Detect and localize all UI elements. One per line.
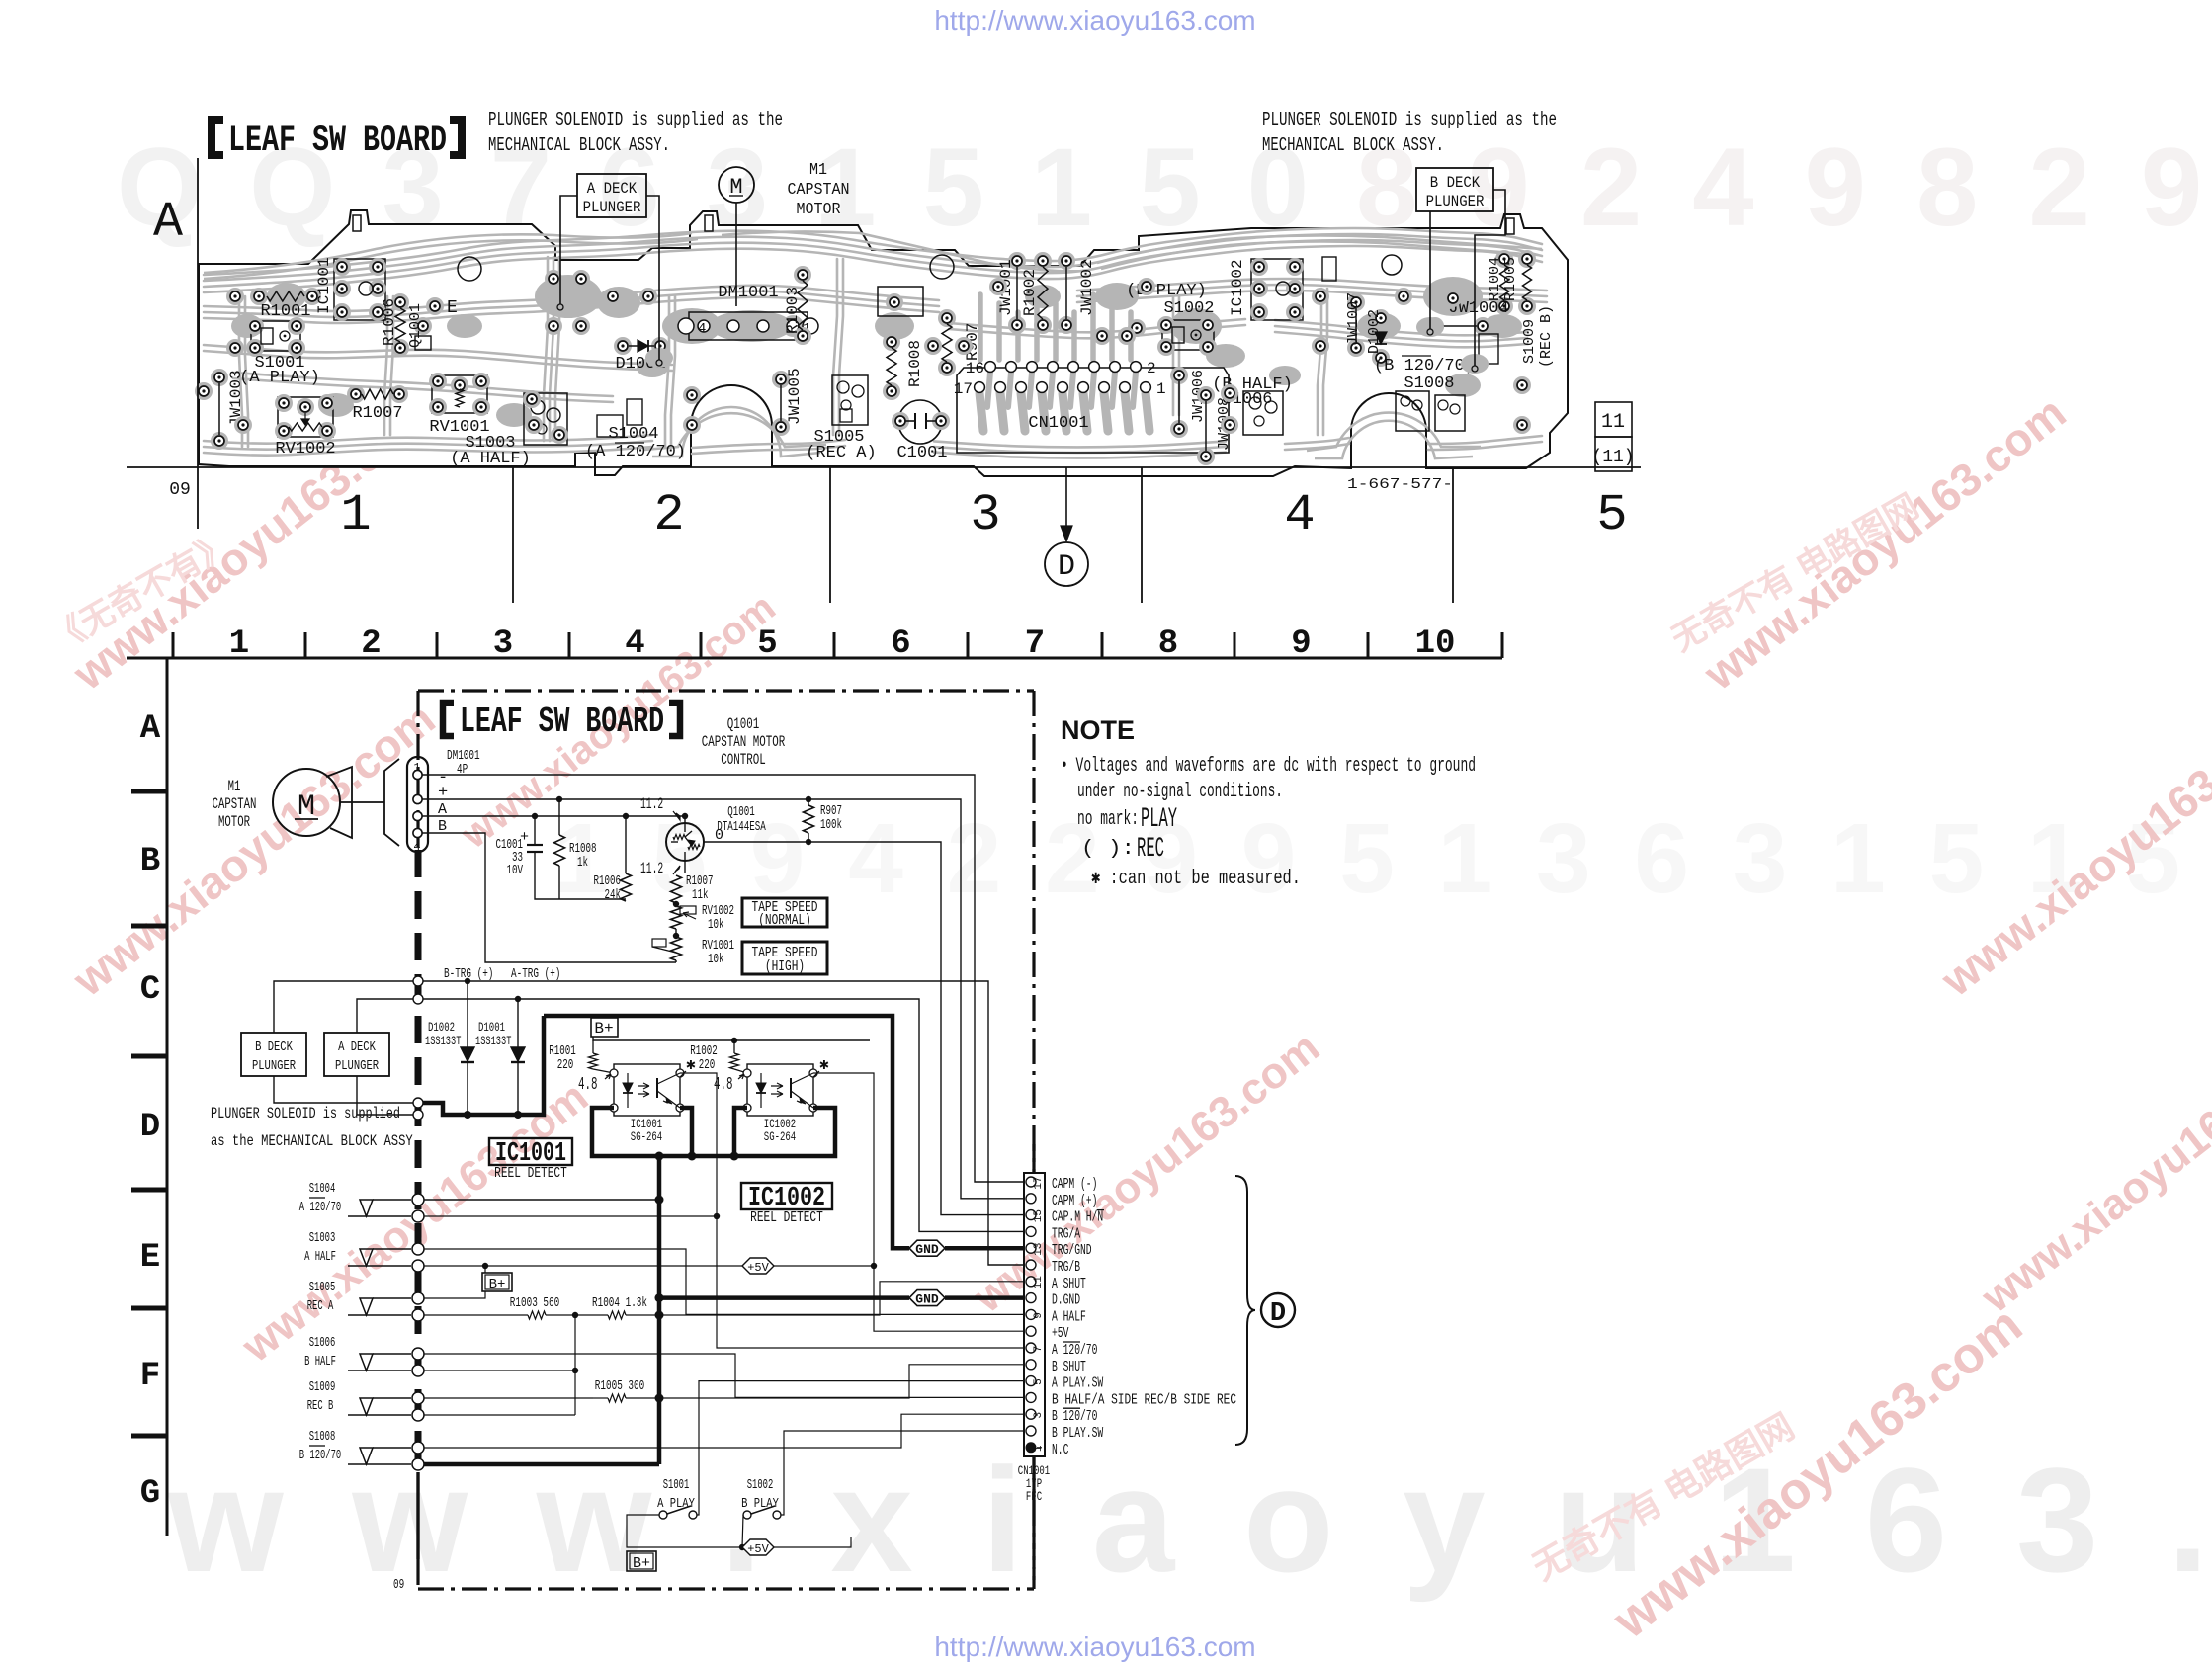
pcb C1001 <box>898 400 942 444</box>
A DECK PLUNGER box <box>324 1033 389 1076</box>
pcb D1002 <box>1372 309 1390 327</box>
svg-text:A HALF: A HALF <box>304 1249 336 1265</box>
pcb R1008 <box>883 333 900 351</box>
pcb S1006 switch body <box>1243 391 1283 435</box>
IC1001 big label <box>489 1138 572 1165</box>
svg-text:2: 2 <box>1147 360 1156 377</box>
pcb R1002 <box>1034 252 1052 270</box>
svg-text:SG-264: SG-264 <box>631 1129 663 1144</box>
svg-text:11.2: 11.2 <box>640 860 663 877</box>
svg-text:4: 4 <box>1284 486 1315 544</box>
wire: +5V supply row <box>627 1515 742 1547</box>
svg-text:CAPSTAN: CAPSTAN <box>213 795 257 813</box>
pcb JW1002 <box>1058 252 1075 270</box>
svg-text:+5V: +5V <box>1052 1325 1068 1342</box>
svg-text:PLUNGER: PLUNGER <box>1426 193 1485 210</box>
pcb R1003 <box>794 266 811 284</box>
svg-text:A 120/70: A 120/70 <box>1052 1342 1097 1359</box>
svg-text:JW1002: JW1002 <box>1078 259 1096 316</box>
wire: B+ rail <box>593 1037 870 1040</box>
svg-text:MECHANICAL BLOCK ASSY.: MECHANICAL BLOCK ASSY. <box>1262 134 1444 156</box>
pcb S1001 (A PLAY) <box>251 321 300 351</box>
svg-text:A DECK: A DECK <box>338 1039 376 1055</box>
svg-text:(A PLAY): (A PLAY) <box>239 369 320 387</box>
svg-text:4.8: 4.8 <box>578 1075 598 1095</box>
pcb IC1001 <box>334 259 385 320</box>
svg-text:1: 1 <box>1156 380 1166 398</box>
svg-text:no mark:: no mark: <box>1077 808 1139 831</box>
svg-text:(HIGH): (HIGH) <box>765 958 805 975</box>
svg-text:RV1002: RV1002 <box>275 440 335 458</box>
svg-text:A DECK: A DECK <box>587 180 638 198</box>
wire: IC1002 output <box>813 1073 874 1266</box>
svg-text:(B 120/70): (B 120/70) <box>1374 357 1475 375</box>
B+ box E row <box>482 1273 512 1291</box>
pcb RV1002 <box>278 397 333 437</box>
wire: S1005 upper to B+ feed <box>424 1291 485 1298</box>
svg-text:PLUNGER SOLEOID is supplied: PLUNGER SOLEOID is supplied <box>211 1105 400 1122</box>
svg-text:11k: 11k <box>692 887 709 903</box>
svg-text:S1004: S1004 <box>608 425 658 444</box>
svg-text:15: 15 <box>1033 1209 1045 1222</box>
svg-text:100k: 100k <box>820 817 842 833</box>
wire: S1003 upper to A HALF <box>424 1249 1024 1314</box>
svg-text:16: 16 <box>966 360 984 377</box>
wire: motor (-) to CAPM(-) <box>422 775 1024 1182</box>
svg-text:5: 5 <box>1596 486 1627 544</box>
svg-text:B 120/70: B 120/70 <box>299 1448 341 1463</box>
wire: S1004 upper to GND bus <box>424 1199 659 1201</box>
svg-text:Q1001: Q1001 <box>727 804 755 820</box>
svg-text:MOTOR: MOTOR <box>797 201 841 219</box>
motor connector bracket <box>384 759 399 846</box>
svg-text:PLUNGER: PLUNGER <box>252 1058 297 1074</box>
svg-text:LEAF SW BOARD: LEAF SW BOARD <box>228 121 447 162</box>
connector DM1001 4P <box>407 757 428 852</box>
svg-text:C1001: C1001 <box>896 444 947 462</box>
svg-text:3: 3 <box>1033 1412 1045 1419</box>
wire: B-TRG to TRG/B <box>423 981 1024 1265</box>
svg-text:9: 9 <box>1291 625 1311 663</box>
svg-text:A PLAY.SW: A PLAY.SW <box>1052 1375 1103 1392</box>
schematic grid ruler <box>127 657 1502 660</box>
svg-text:(REC A): (REC A) <box>806 444 876 462</box>
B+ box (reel detect supply) <box>591 1018 618 1037</box>
svg-text:SG-264: SG-264 <box>764 1129 797 1144</box>
svg-text:B+: B+ <box>633 1555 650 1572</box>
trimmer RV1001 10k <box>671 937 682 960</box>
svg-text:D1002: D1002 <box>1366 309 1383 354</box>
svg-text:(NORMAL): (NORMAL) <box>758 912 811 929</box>
svg-text:GND: GND <box>915 1242 939 1257</box>
svg-text:10V: 10V <box>507 863 524 878</box>
svg-text:B DECK: B DECK <box>1430 174 1481 192</box>
svg-text:CAPM (-): CAPM (-) <box>1052 1176 1097 1193</box>
svg-text:B SHUT: B SHUT <box>1052 1359 1086 1375</box>
svg-text:A: A <box>153 195 183 251</box>
svg-text:S1003: S1003 <box>309 1230 336 1246</box>
wire: S1002 right to B PLAY.SW <box>781 1431 1024 1515</box>
svg-text:CAPSTAN: CAPSTAN <box>788 181 850 200</box>
wire: S1008 upper to B 120/70 <box>424 1414 1024 1448</box>
svg-text:D.GND: D.GND <box>1052 1292 1080 1309</box>
svg-text:8: 8 <box>1158 625 1178 663</box>
svg-text:B HALF/A SIDE REC/B SIDE REC: B HALF/A SIDE REC/B SIDE REC <box>1052 1391 1236 1408</box>
svg-text:R1001: R1001 <box>260 302 310 321</box>
pcb D1001 <box>614 337 632 355</box>
svg-text:CONTROL: CONTROL <box>721 751 766 769</box>
svg-text:M1: M1 <box>228 778 241 795</box>
pcb E mark <box>426 297 444 315</box>
+5V marker E row <box>742 1258 774 1274</box>
svg-text:Q1001: Q1001 <box>407 303 424 348</box>
wire: motor (+) to CAPM(+) <box>422 799 1024 1199</box>
wire: S1008 lower heavy to GND bus <box>424 1462 659 1467</box>
svg-text:17: 17 <box>1033 1176 1045 1189</box>
svg-text:http://www.xiaoyu163.com: http://www.xiaoyu163.com <box>934 1631 1255 1662</box>
wire: R1005 node to B SHUT <box>659 1365 1024 1398</box>
svg-text:S1006: S1006 <box>309 1335 336 1351</box>
node: A-TRG entry <box>413 994 423 1004</box>
TAPE SPEED (HIGH) box <box>742 942 827 974</box>
wire joining C1001/R1008/R1006 bottoms <box>535 868 626 899</box>
svg-text:R1004 1.3k: R1004 1.3k <box>592 1295 647 1311</box>
pcb R1007 <box>347 385 365 403</box>
pcb title LEAF SW BOARD <box>212 120 223 155</box>
svg-text:A HALF: A HALF <box>1052 1308 1086 1325</box>
svg-text:+5V: +5V <box>747 1542 769 1556</box>
svg-text:S1002: S1002 <box>747 1477 774 1493</box>
heavy trace bus under reel detect optos <box>592 1108 835 1156</box>
svg-text:S1009: S1009 <box>1521 319 1538 364</box>
pcb right switch bodies <box>1396 391 1429 431</box>
svg-text:PLUNGER: PLUNGER <box>335 1058 380 1074</box>
svg-text:REC A: REC A <box>307 1298 334 1314</box>
svg-text:DM1001: DM1001 <box>718 284 778 302</box>
pcb RV1001 <box>432 375 487 413</box>
svg-text:0: 0 <box>715 827 723 844</box>
svg-text:1: 1 <box>229 625 249 663</box>
svg-text:PLUNGER: PLUNGER <box>583 199 641 216</box>
M1 capstan motor symbol <box>719 167 754 203</box>
svg-text:D: D <box>140 1109 160 1146</box>
pcb JW1003 <box>211 369 228 386</box>
svg-text:B+: B+ <box>489 1277 506 1292</box>
svg-text:R1007: R1007 <box>352 404 402 423</box>
svg-text:1SS133T: 1SS133T <box>425 1034 462 1048</box>
pcb R1004 R1005 <box>1495 250 1513 268</box>
svg-text:JW1005: JW1005 <box>786 368 804 425</box>
IC1002 big label <box>741 1183 832 1209</box>
svg-text:CAP.M H/N: CAP.M H/N <box>1052 1209 1103 1226</box>
svg-text:PLUNGER SOLENOID is supplied a: PLUNGER SOLENOID is supplied as the <box>1262 109 1557 130</box>
pcb IC1002 <box>1251 259 1303 320</box>
pcb JW1008 <box>1197 386 1215 404</box>
svg-text:11: 11 <box>1033 1276 1045 1289</box>
opto-isolator IC1002 SG-264 <box>747 1064 813 1116</box>
svg-text:S1008: S1008 <box>1404 374 1454 393</box>
brace D <box>1235 1176 1255 1445</box>
svg-text:10k: 10k <box>708 952 724 967</box>
svg-text:A PLAY: A PLAY <box>657 1496 695 1512</box>
11 / (11) boxes <box>1595 402 1632 437</box>
svg-text:R1002: R1002 <box>1021 269 1039 316</box>
B DECK PLUNGER box <box>241 1033 306 1076</box>
node: B-TRG entry <box>413 976 423 986</box>
pcb Q1001 <box>414 317 432 335</box>
circled D arrow <box>1065 467 1067 534</box>
resistor R1008 1k <box>558 799 560 835</box>
svg-text:09: 09 <box>393 1577 404 1593</box>
wire: motor A to transistor <box>422 815 685 817</box>
svg-text:✱: ✱ <box>686 1056 696 1074</box>
svg-text:1k: 1k <box>577 855 588 871</box>
svg-text:REEL DETECT: REEL DETECT <box>494 1165 567 1182</box>
svg-text:S1005: S1005 <box>309 1280 336 1295</box>
svg-text:REC: REC <box>1137 834 1164 865</box>
resistor R907 100k <box>808 799 809 805</box>
svg-text:S1008: S1008 <box>309 1429 336 1445</box>
svg-text:CAPM (+): CAPM (+) <box>1052 1193 1097 1209</box>
pcb CN1001 <box>957 368 1229 453</box>
wire: S1004 lower to A 120/70 <box>424 1216 1024 1348</box>
svg-text:7: 7 <box>1025 625 1045 663</box>
resistor R1007 11k <box>671 875 682 903</box>
svg-text:D: D <box>1058 550 1075 584</box>
svg-text:R1005: R1005 <box>1502 257 1519 301</box>
A DECK PLUNGER box <box>577 174 646 217</box>
+5V marker bottom <box>742 1539 774 1555</box>
wire: S1006 upper to B HALF/A SIDE REC/B SIDE REC <box>424 1354 1024 1397</box>
svg-text:D1002: D1002 <box>428 1020 455 1035</box>
opto-isolator IC1001 SG-264 <box>614 1064 680 1116</box>
svg-text:10k: 10k <box>708 917 724 933</box>
wire: A-TRG to A DECK PLUNGER <box>357 999 413 1033</box>
svg-text:D: D <box>1270 1299 1286 1329</box>
wire: S1001 right to A PLAY.SW <box>697 1381 1024 1515</box>
svg-text:1SS133T: 1SS133T <box>475 1034 512 1048</box>
svg-text:A: A <box>140 710 161 748</box>
svg-text:NOTE: NOTE <box>1061 715 1135 745</box>
svg-text:E: E <box>140 1239 160 1277</box>
svg-text:5: 5 <box>757 625 777 663</box>
svg-text:B 120/70: B 120/70 <box>1052 1408 1097 1425</box>
svg-text:B+: B+ <box>594 1020 613 1038</box>
wire: emitter 0 to CAP.M H/N <box>808 842 1024 1215</box>
svg-text:TRG/B: TRG/B <box>1052 1259 1080 1276</box>
wire: R1004 node to A SHUT <box>659 1282 1024 1315</box>
plunger leg landing blobs <box>547 292 574 312</box>
svg-text:R1006: R1006 <box>381 298 398 346</box>
B+ box bottom <box>627 1551 656 1571</box>
svg-text:10: 10 <box>1415 625 1456 663</box>
svg-text:F: F <box>140 1358 160 1395</box>
svg-text:1: 1 <box>340 486 371 544</box>
wire: IC1001 output <box>680 1073 717 1216</box>
svg-text:S1004: S1004 <box>309 1181 336 1197</box>
svg-text:B PLAY: B PLAY <box>741 1496 779 1512</box>
svg-text:5: 5 <box>1033 1378 1045 1385</box>
svg-text:under no-signal conditions.: under no-signal conditions. <box>1077 781 1283 803</box>
svg-text:11.2: 11.2 <box>640 795 663 813</box>
svg-text:(11): (11) <box>1591 448 1634 467</box>
svg-text:B DECK: B DECK <box>255 1039 293 1055</box>
B DECK PLUNGER box <box>1416 168 1493 211</box>
svg-text:11: 11 <box>1601 411 1625 434</box>
board outline <box>199 210 1568 476</box>
wire: S1003 lower to +5V <box>424 1265 742 1267</box>
GND marker <box>909 1240 945 1256</box>
svg-text:S1002: S1002 <box>1163 299 1214 318</box>
heavy line below connector <box>1032 1456 1035 1524</box>
svg-text:4: 4 <box>625 625 644 663</box>
svg-text:TRG/A: TRG/A <box>1052 1225 1080 1242</box>
svg-text:R1004: R1004 <box>1487 257 1503 301</box>
svg-text:D1001: D1001 <box>478 1020 505 1035</box>
svg-text:GND: GND <box>915 1292 939 1307</box>
TAPE SPEED (NORMAL) box <box>742 898 827 927</box>
wire: S1006 lower junction chain <box>424 1370 575 1371</box>
svg-text:✱ :can not be measured.: ✱ :can not be measured. <box>1091 868 1301 890</box>
svg-text:220: 220 <box>699 1057 716 1073</box>
svg-text:4: 4 <box>413 840 420 854</box>
svg-text:1: 1 <box>413 761 420 775</box>
svg-text:R1005 300: R1005 300 <box>595 1378 644 1394</box>
pcb resistor R1001 <box>250 288 268 305</box>
svg-text:17: 17 <box>954 380 973 398</box>
svg-text:220: 220 <box>557 1057 574 1073</box>
wire: A-TRG to TRG/A <box>423 999 1024 1231</box>
svg-text:A-TRG (+): A-TRG (+) <box>511 966 560 982</box>
svg-text:REC B: REC B <box>307 1398 334 1414</box>
svg-text:http://www.xiaoyu163.com: http://www.xiaoyu163.com <box>934 5 1255 36</box>
svg-text:PLUNGER SOLENOID is supplied a: PLUNGER SOLENOID is supplied as the <box>488 109 783 130</box>
pcb JW1001 <box>1008 252 1026 270</box>
LEAF SW BOARD dashed outline <box>418 689 1034 692</box>
svg-text:3: 3 <box>493 625 513 663</box>
svg-text:( ):: ( ): <box>1081 838 1135 861</box>
svg-text:A 120/70: A 120/70 <box>299 1200 341 1215</box>
pcb R1006 <box>391 293 409 311</box>
svg-text:(A HALF): (A HALF) <box>450 450 531 468</box>
pcb JW1007 <box>1347 293 1365 311</box>
svg-text:✱: ✱ <box>819 1056 829 1074</box>
svg-text:E: E <box>447 298 458 318</box>
circled D <box>1261 1293 1295 1327</box>
pcb copper traces (grey) <box>204 228 1542 275</box>
connector CN1001 17P FFC <box>1024 1173 1045 1456</box>
svg-text:PLAY: PLAY <box>1141 804 1177 835</box>
svg-text:LEAF SW BOARD: LEAF SW BOARD <box>460 702 664 742</box>
wire: S1005 lower through R1003/R1004 <box>424 1314 528 1316</box>
svg-text:• Voltages and waveforms are d: • Voltages and waveforms are dc with res… <box>1061 755 1476 778</box>
svg-text:CAPSTAN MOTOR: CAPSTAN MOTOR <box>702 733 786 751</box>
svg-text:as the MECHANICAL BLOCK ASSY.: as the MECHANICAL BLOCK ASSY. <box>211 1132 420 1150</box>
svg-text:CN1001: CN1001 <box>1028 414 1088 433</box>
svg-text:DTA144ESA: DTA144ESA <box>717 819 766 835</box>
svg-text:4: 4 <box>698 321 706 337</box>
svg-text:1-667-577-: 1-667-577- <box>1347 476 1453 493</box>
GND marker <box>909 1290 945 1306</box>
pcb JW1005 <box>772 371 790 388</box>
svg-text:R1003 560: R1003 560 <box>510 1295 559 1311</box>
pcb S1005 <box>832 375 868 425</box>
pcb switch body S1003 <box>524 393 567 445</box>
svg-text:A SHUT: A SHUT <box>1052 1276 1086 1292</box>
svg-text:MOTOR: MOTOR <box>218 813 250 831</box>
svg-text:1: 1 <box>1033 1445 1045 1452</box>
wire: motor B down and to RV chain <box>422 833 676 962</box>
svg-text:6: 6 <box>891 625 910 663</box>
svg-text:TRG/GND: TRG/GND <box>1052 1242 1092 1259</box>
svg-text:B HALF: B HALF <box>304 1354 336 1370</box>
svg-text:N.C: N.C <box>1052 1442 1068 1458</box>
pcb JW1006 <box>1170 367 1188 384</box>
svg-text:G: G <box>140 1475 160 1513</box>
pcb R907 <box>938 309 956 327</box>
svg-text:(REC B): (REC B) <box>1538 305 1555 368</box>
svg-text:9: 9 <box>1033 1312 1045 1319</box>
wire: B-TRG to B DECK PLUNGER <box>274 981 413 1033</box>
svg-text:B: B <box>140 843 160 880</box>
svg-text:JW1007: JW1007 <box>1345 292 1362 346</box>
svg-text:7: 7 <box>1033 1346 1045 1353</box>
svg-text:13: 13 <box>1033 1243 1045 1256</box>
svg-text:IC1001: IC1001 <box>315 257 333 314</box>
wire: S1009 upper through R1005 <box>424 1397 593 1399</box>
svg-text:2: 2 <box>361 625 381 663</box>
wire: S1009 lower <box>424 1414 575 1416</box>
svg-text:M1: M1 <box>809 161 827 180</box>
svg-text:R1008: R1008 <box>906 340 924 387</box>
wire: heavy plunger common to GND rail <box>423 1016 544 1115</box>
svg-text:w w w . x i a o y u 1 6 3 . c: w w w . x i a o y u 1 6 3 . c o m <box>167 1437 2212 1603</box>
svg-text:S1001: S1001 <box>663 1477 690 1493</box>
schematic left border with row letters <box>166 658 169 1536</box>
resistor R1006 24k <box>625 816 627 873</box>
svg-text:24k: 24k <box>605 887 622 903</box>
svg-text:REEL DETECT: REEL DETECT <box>750 1209 823 1226</box>
pcb frame line <box>197 158 199 529</box>
svg-text:09: 09 <box>169 480 191 500</box>
pcb ruler ticks <box>512 467 514 603</box>
pcb misc small parts <box>878 287 923 316</box>
capacitor C1001 33/10V <box>534 816 536 845</box>
svg-text:IC1002: IC1002 <box>1229 259 1246 316</box>
transistor Q1001 DTA144ESA <box>666 823 704 861</box>
svg-text:Q1001: Q1001 <box>727 715 760 733</box>
svg-text:S1009: S1009 <box>309 1379 336 1395</box>
svg-text:2: 2 <box>653 486 684 544</box>
svg-text:(A 120/70): (A 120/70) <box>585 443 686 461</box>
svg-text:B PLAY.SW: B PLAY.SW <box>1052 1425 1103 1442</box>
trimmer RV1002 10k <box>671 906 682 929</box>
svg-text:C: C <box>140 971 160 1009</box>
wire: plunger return entries <box>413 1098 423 1108</box>
svg-text:3: 3 <box>970 486 1000 544</box>
svg-text:R1003: R1003 <box>784 287 802 334</box>
svg-text:MECHANICAL BLOCK ASSY.: MECHANICAL BLOCK ASSY. <box>488 134 670 156</box>
heavy GND bus from reel detect <box>657 1156 662 1464</box>
svg-text:+5V: +5V <box>747 1261 769 1275</box>
schematic title LEAF SW BOARD <box>443 703 454 736</box>
